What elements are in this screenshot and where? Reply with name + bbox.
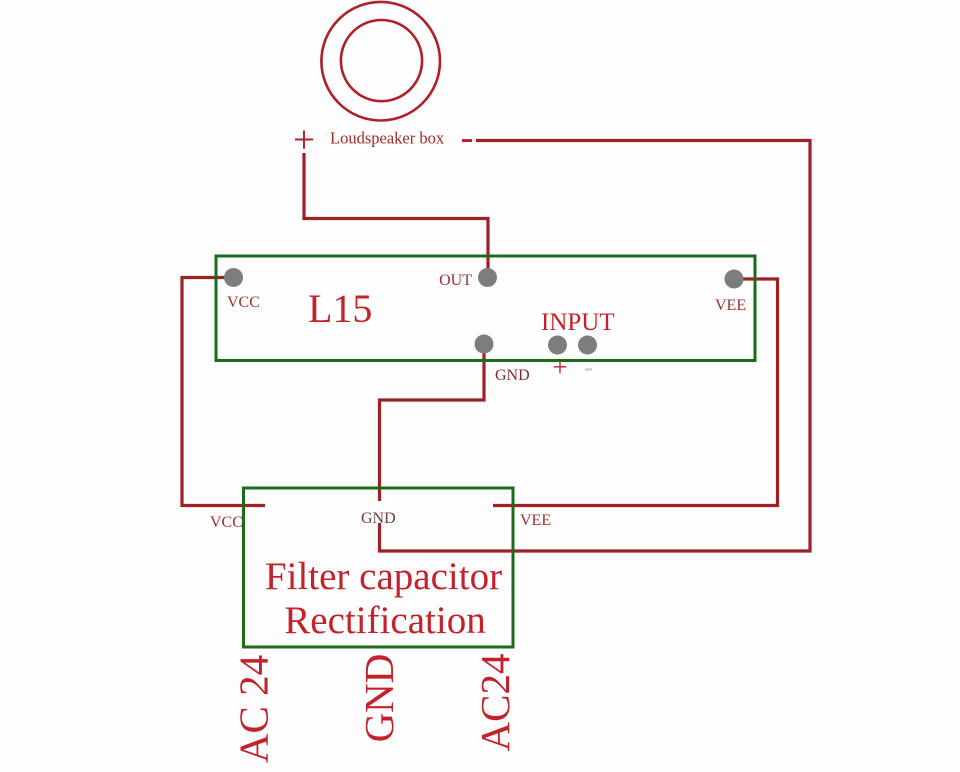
svg-text:-: -	[584, 352, 593, 382]
wire: loudspeaker + to OUT	[304, 153, 488, 273]
wire: loudspeaker - to GND net (right outer loop)	[378, 141, 810, 552]
svg-text:OUT: OUT	[439, 272, 472, 289]
loudspeaker + terminal	[293, 119, 315, 162]
loudspeaker outer circle	[321, 2, 440, 121]
svg-text:VEE: VEE	[520, 512, 551, 529]
svg-text:-: -	[461, 116, 474, 159]
svg-text:AC 24: AC 24	[231, 655, 277, 763]
L15 label	[308, 286, 372, 331]
wire: L15 VEE to filter VEE (right inner loop)	[493, 279, 778, 506]
svg-text:+: +	[552, 352, 567, 382]
svg-text:Filter capacitor: Filter capacitor	[265, 555, 502, 598]
node OUT dot (L15)	[478, 268, 497, 287]
svg-text:VCC: VCC	[210, 514, 243, 531]
input + polarity mark	[552, 352, 567, 382]
svg-text:AC24: AC24	[472, 654, 518, 752]
INPUT label	[541, 309, 615, 336]
node VEE dot (L15)	[725, 270, 744, 289]
pin label OUT	[439, 272, 472, 289]
svg-text:GND: GND	[356, 654, 402, 743]
filter box title line 1	[265, 555, 502, 598]
node INPUT + dot	[548, 336, 567, 355]
filter capacitor rectification box	[244, 488, 514, 647]
svg-text:GND: GND	[495, 367, 530, 384]
node VCC dot (L15)	[224, 268, 243, 287]
terminal label AC 24 (rotated)	[231, 655, 277, 763]
svg-text:Rectification: Rectification	[284, 599, 485, 642]
svg-text:INPUT: INPUT	[541, 309, 615, 336]
terminal label GND (rotated)	[356, 654, 402, 743]
filter box title line 2	[284, 599, 485, 642]
wire: filter GND lower segment	[378, 523, 381, 551]
svg-text:VCC: VCC	[227, 294, 260, 311]
input - polarity mark	[584, 352, 593, 382]
amplifier board L15 box	[216, 256, 755, 361]
svg-text:Loudspeaker box: Loudspeaker box	[330, 129, 445, 148]
node INPUT - dot	[578, 336, 597, 355]
svg-text:VEE: VEE	[715, 297, 746, 314]
wire: L15 VCC to filter VCC (left loop)	[182, 278, 265, 506]
loudspeaker - terminal	[461, 116, 474, 159]
loudspeaker inner circle	[341, 20, 422, 101]
label Loudspeaker box	[330, 129, 445, 148]
pin label GND (filter)	[361, 510, 396, 527]
pin label VCC (L15)	[227, 294, 260, 311]
terminal label AC24 (rotated)	[472, 654, 518, 752]
svg-text:L15: L15	[308, 286, 372, 331]
svg-text:GND: GND	[361, 510, 396, 527]
pin label GND (L15)	[495, 367, 530, 384]
pin label VEE (filter)	[520, 512, 551, 529]
pin label VEE (L15)	[715, 297, 746, 314]
wire: L15 GND down to filter GND	[380, 344, 485, 501]
pin label VCC (filter)	[210, 514, 243, 531]
node GND dot (L15)	[475, 335, 494, 354]
